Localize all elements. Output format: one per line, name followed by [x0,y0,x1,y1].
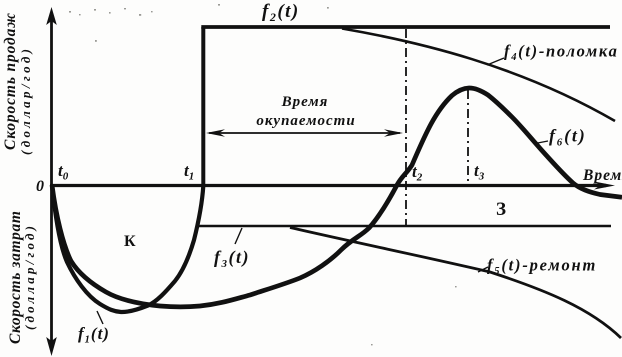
curve f6 (profit rate: dip, S-rise, bell, decline) [52,88,622,307]
curve f5 (repair) [290,228,621,339]
x-axis (time axis) [50,184,606,187]
svg-text:Скорость продаж: Скорость продаж [2,13,19,150]
y-axis [50,20,53,342]
dash-dot vertical at t3 [467,90,469,184]
line f3 (horizontal operating-cost line) [196,225,611,228]
svg-text:f6(t): f6(t) [549,126,587,149]
payback-period double arrow [209,132,400,134]
scan speckles (decorative) [69,4,457,345]
curve f1 (development cost rate, bounds K region) [52,185,203,312]
svg-text:Время: Время [582,167,622,184]
curve f4 (breakage) [342,29,615,122]
x-axis arrowhead [594,182,615,190]
svg-text:f3(t): f3(t) [214,247,250,270]
svg-text:f5(t)-ремонт: f5(t)-ремонт [487,256,597,278]
svg-text:З: З [496,199,506,220]
svg-text:f2(t): f2(t) [262,1,300,24]
leader line f4 label [487,58,504,65]
curve f2 step: horizontal top segment [201,25,610,29]
leader line f1 label [97,311,103,324]
y-axis bottom arrowhead [46,337,57,356]
leader line f5 label [478,267,488,272]
svg-text:окупаемости: окупаемости [256,113,355,129]
svg-text:f1(t): f1(t) [78,324,110,346]
dash-dot vertical at t2 [405,29,407,225]
svg-text:f4(t)-поломка: f4(t)-поломка [504,42,619,64]
leader line f6 label [535,141,548,144]
leader line f3 label [235,228,242,244]
svg-text:0: 0 [36,178,44,195]
svg-text:К: К [124,233,136,250]
curve f2 step: vertical segment at t1 [201,27,205,186]
svg-text:Время: Время [281,94,329,110]
y-axis top arrowhead [46,7,57,25]
